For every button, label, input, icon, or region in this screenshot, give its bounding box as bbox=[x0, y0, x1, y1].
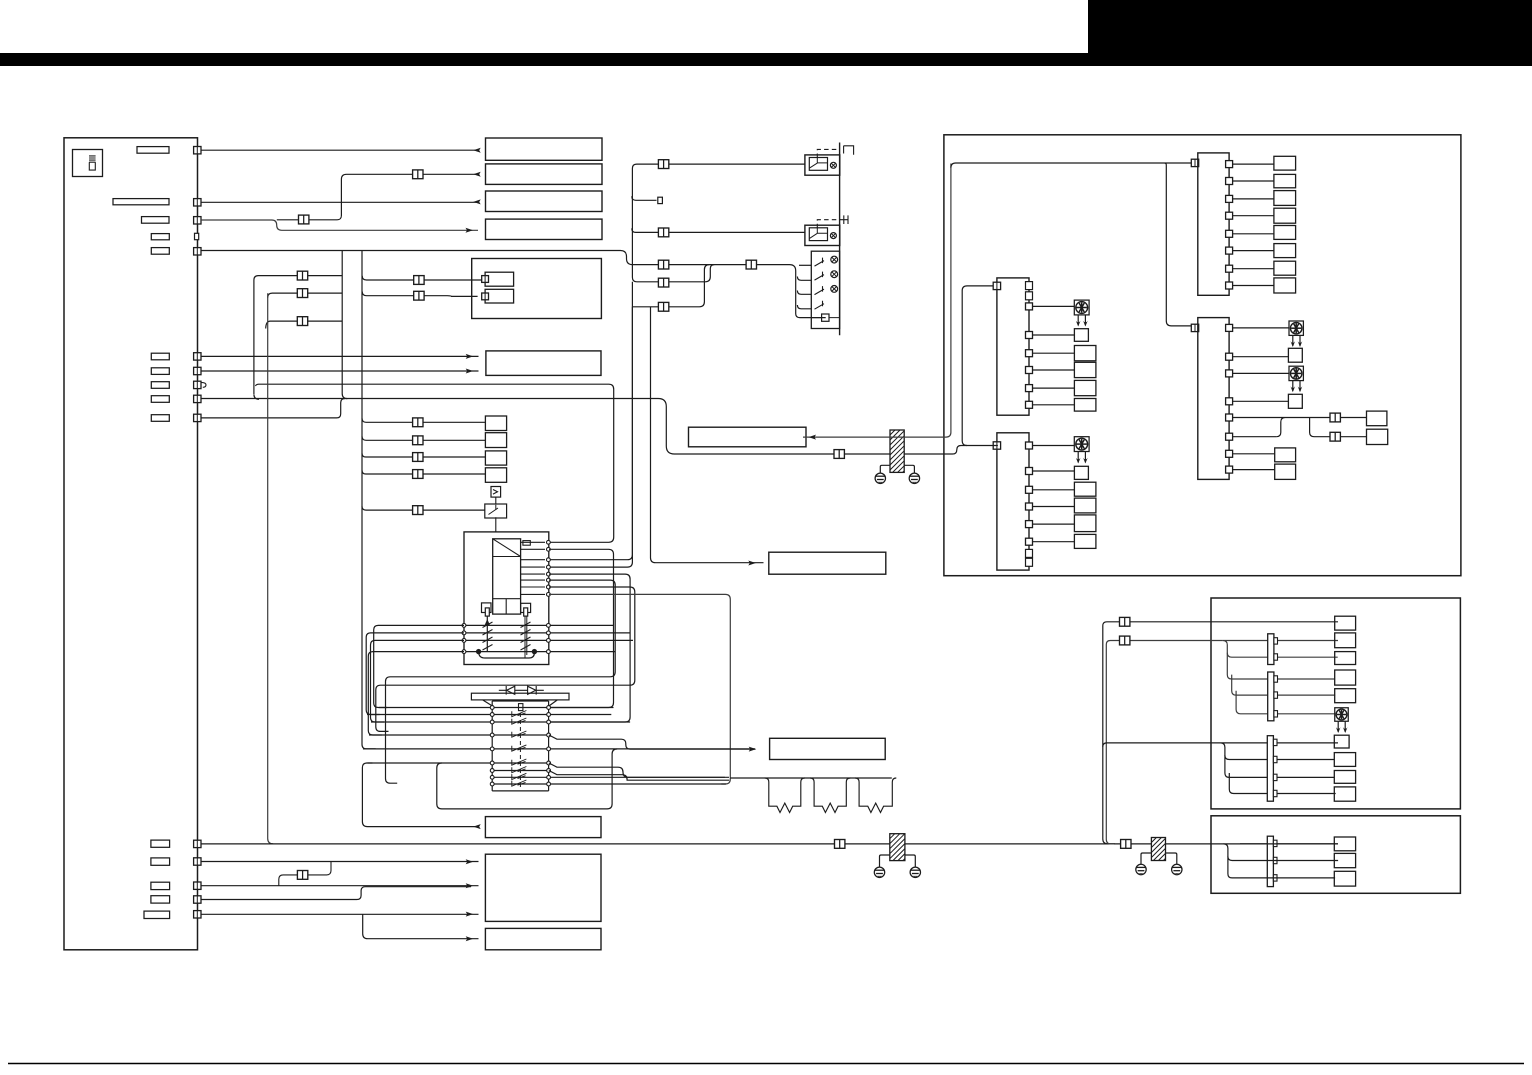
symbol link wire bbox=[495, 497, 497, 532]
wire long vertical x268 bbox=[268, 293, 274, 844]
wire strip1 row 6 bbox=[1233, 250, 1274, 252]
ladder row y748 bbox=[363, 748, 755, 750]
wire c5 bbox=[201, 913, 479, 915]
connector jog B bbox=[297, 289, 307, 298]
terminal box C-2 bbox=[1335, 633, 1356, 648]
ign row pin R y632 bbox=[547, 631, 551, 635]
fuse F15 bbox=[144, 911, 170, 918]
JB2 stub 2 bbox=[1274, 692, 1278, 698]
wire switch-symbol feed bbox=[362, 506, 485, 510]
terminal box C-4 bbox=[1335, 670, 1356, 685]
stack switch S3 bbox=[815, 286, 825, 295]
stub connector square bbox=[658, 197, 663, 203]
connector SB3 bbox=[413, 453, 423, 462]
fuse F1 bbox=[137, 147, 169, 154]
ign bottom link bbox=[479, 652, 535, 658]
hatched connector H3 bbox=[1151, 838, 1165, 861]
arrow into B3 bbox=[473, 199, 481, 204]
connector SB4 bbox=[413, 470, 423, 479]
ign relay top connector bbox=[523, 541, 530, 546]
ladder contact stroke y748 bbox=[512, 745, 527, 751]
fuse F9 bbox=[151, 396, 169, 403]
wire C feed1 bbox=[1103, 622, 1338, 844]
connector C2 bbox=[1120, 636, 1130, 645]
ECU pin y371 bbox=[194, 367, 201, 374]
ladder pin L y777 bbox=[490, 775, 494, 779]
wire long vertical x362 bbox=[362, 251, 376, 749]
wire y306 to S-merge bbox=[632, 265, 709, 307]
fuse F5 bbox=[151, 248, 169, 255]
wire P9 merge bbox=[201, 399, 345, 418]
ladder top component bbox=[519, 704, 523, 711]
arrow into B4 bbox=[466, 228, 474, 233]
strip3 pin 3 bbox=[1226, 370, 1233, 377]
terminal box T1-1 bbox=[1274, 156, 1296, 170]
wire strip1 row 8 bbox=[1233, 285, 1274, 287]
ladder bottom bbox=[492, 701, 548, 791]
wire SB4 feed bbox=[362, 470, 485, 474]
terminal box T3-2 bbox=[1288, 348, 1302, 362]
wire c2-c3 jog bbox=[279, 862, 331, 886]
terminal box C-9 bbox=[1334, 787, 1355, 801]
label box B9 bbox=[485, 817, 601, 838]
stack switch S4 bbox=[815, 301, 825, 310]
ladder pin R y770 bbox=[547, 769, 551, 773]
JB3 stub 2 bbox=[1273, 756, 1277, 762]
ladder pin R y722 bbox=[547, 720, 551, 724]
connector jog C bbox=[297, 317, 307, 326]
ladder contact stroke y770 bbox=[512, 767, 527, 773]
arrow into BD r3 bbox=[466, 912, 474, 917]
arrow into B7 bbox=[748, 561, 756, 566]
arrow into BD r2 bbox=[466, 883, 474, 888]
diode bar left leg bbox=[483, 700, 493, 706]
fan motor FM2 bbox=[1289, 321, 1303, 335]
terminal box T1-8 bbox=[1274, 278, 1296, 293]
wire relaypin 559 riser bbox=[549, 282, 632, 560]
connector strip S3 bbox=[1198, 318, 1229, 480]
ECU pin y150 bbox=[194, 147, 201, 154]
strip3 pin 6 bbox=[1226, 433, 1233, 440]
component M1 sub-box 2 bbox=[485, 289, 513, 303]
wire lrow651 west bbox=[368, 652, 464, 735]
battery icon box bbox=[73, 150, 103, 177]
small box SB1 bbox=[485, 416, 506, 431]
ECU pin y417 bbox=[194, 414, 201, 421]
connector M1 feed 1 bbox=[414, 276, 424, 285]
JB1 stub 1 bbox=[1274, 638, 1278, 644]
wire M1 feed 2 bbox=[362, 292, 477, 297]
wire C fan2c bbox=[1232, 675, 1335, 696]
wire C fan3c bbox=[1229, 773, 1335, 794]
switch feed branch 2 bbox=[797, 291, 811, 295]
strip4 left pin bbox=[993, 442, 1000, 449]
relay pin row 542 bbox=[547, 540, 551, 544]
wire C fan3b bbox=[1225, 755, 1334, 777]
wire c2 bbox=[201, 861, 479, 863]
strip3 pin 5 bbox=[1226, 414, 1233, 421]
relay pin row 559 bbox=[547, 558, 551, 562]
strip2 pin 3 bbox=[1026, 350, 1033, 357]
ladder contact stroke y735 bbox=[512, 731, 527, 737]
ladder bottom loop bbox=[437, 749, 617, 809]
strip2 pin 6 bbox=[1026, 401, 1033, 408]
stack lamp L2 bbox=[831, 271, 838, 278]
strip3 pin 1 bbox=[1226, 324, 1233, 331]
joint bar JB4 bbox=[1267, 836, 1273, 886]
connector relay1 feed bbox=[658, 160, 668, 169]
diode bar bbox=[471, 693, 569, 700]
wire strip1 row 3 bbox=[1233, 198, 1274, 200]
wire relay2 feed bbox=[632, 228, 805, 232]
resistor R1 bbox=[765, 778, 805, 813]
fuse F11 bbox=[151, 840, 170, 847]
terminal box T2-5 bbox=[1074, 380, 1096, 395]
terminal box T1-5 bbox=[1274, 226, 1296, 240]
small box SB4 bbox=[485, 468, 506, 483]
terminal box T3-8 bbox=[1275, 464, 1296, 479]
connector on P3 jog bbox=[299, 215, 309, 224]
relay K2 dashed box bbox=[817, 220, 839, 229]
footer rule bbox=[8, 1063, 1524, 1065]
connector on B2 wire bbox=[413, 170, 423, 179]
strip1 pin 8 bbox=[1226, 282, 1233, 289]
strip1 left pin bbox=[1191, 159, 1198, 166]
terminal box T1-6 bbox=[1274, 244, 1296, 258]
wire c4 bbox=[201, 887, 471, 900]
wire strip3 row6 bbox=[1233, 418, 1367, 437]
diode symbol box bbox=[491, 487, 501, 498]
wire strip3 row5 bbox=[1233, 418, 1367, 437]
small box SB2 bbox=[485, 433, 506, 448]
fan motor FM3 bbox=[1289, 366, 1303, 380]
ground G2 bbox=[909, 473, 919, 483]
ign relay outer box bbox=[464, 532, 549, 665]
terminal box C-5 bbox=[1335, 689, 1356, 703]
label box B2 bbox=[486, 164, 603, 185]
ladder jog row763 bbox=[549, 763, 725, 777]
wire strip3 row3 bbox=[1233, 372, 1289, 374]
ladder pin L y770 bbox=[490, 769, 494, 773]
switch stack box bbox=[811, 251, 839, 328]
joint bar JB1 bbox=[1268, 634, 1274, 665]
switch feed branch 3 bbox=[797, 305, 811, 309]
connector on y282 wire bbox=[658, 278, 668, 287]
strip1 pin 3 bbox=[1226, 195, 1233, 202]
label box B10 bbox=[485, 928, 601, 949]
strip2 stub 2 bbox=[1026, 292, 1033, 300]
connector strip S4 bbox=[997, 433, 1029, 570]
label box B5 bbox=[486, 351, 601, 376]
terminal box T2-2 bbox=[1074, 329, 1088, 342]
strip1 pin 7 bbox=[1226, 265, 1233, 272]
terminal box E-3 bbox=[1334, 871, 1355, 886]
component box M1 bbox=[472, 259, 602, 319]
wire strip1 row 5 bbox=[1233, 233, 1274, 235]
ECU bus vertical bbox=[632, 164, 805, 282]
ECU pin y251 bbox=[194, 248, 201, 255]
arrow into B6 bbox=[809, 435, 817, 440]
wire pin580 drop bbox=[386, 580, 616, 783]
ign contact dot R bbox=[532, 649, 537, 654]
wire pin549 drop bbox=[549, 549, 614, 707]
fan arrows FM5 bbox=[1336, 722, 1348, 734]
ladder pin L y748 bbox=[490, 747, 494, 751]
ground stem H2 L bbox=[880, 855, 890, 867]
strip3 pin 4 bbox=[1226, 398, 1233, 405]
strip1 pin 2 bbox=[1226, 178, 1233, 185]
arrow into B2 bbox=[473, 172, 481, 177]
ECU pin stub bbox=[195, 233, 199, 239]
resistor R3 bbox=[855, 778, 896, 813]
wire strip4 row1 bbox=[1033, 445, 1075, 447]
label box B1 bbox=[486, 138, 603, 160]
wire relaypin 567 riser bbox=[549, 307, 632, 567]
connector SB2 bbox=[413, 436, 423, 445]
fan arrows FM2 bbox=[1291, 336, 1303, 348]
terminal box T1-7 bbox=[1274, 261, 1296, 275]
wire strip4 row6 bbox=[1033, 541, 1075, 543]
wire strip2 row 2 bbox=[1033, 334, 1075, 336]
JB4 stub 3 bbox=[1273, 875, 1277, 881]
wire B7 drop bbox=[651, 307, 764, 563]
JB4 stub 1 bbox=[1273, 840, 1277, 846]
wire P5 branch down A bbox=[342, 251, 347, 399]
connector relay2 feed bbox=[658, 228, 668, 237]
connector T3 r5 bbox=[1330, 413, 1340, 422]
relay pin row 594 bbox=[547, 593, 551, 597]
ground stem H3 R bbox=[1166, 853, 1177, 864]
ladder pin L y707 bbox=[490, 706, 494, 710]
fan arrows FM4 bbox=[1076, 452, 1088, 464]
ladder left rail bbox=[491, 701, 493, 791]
ladder pin R y707 bbox=[547, 706, 551, 710]
terminal box C-1 bbox=[1335, 616, 1356, 630]
connector M1 feed 2 bbox=[414, 291, 424, 300]
ign row pin L y625 bbox=[462, 624, 466, 628]
strip3 pin 8 bbox=[1226, 466, 1233, 473]
connector on y306 wire bbox=[658, 302, 668, 311]
fuse F14 bbox=[151, 896, 170, 903]
ladder row y714 bbox=[367, 714, 611, 716]
wire E row1 bbox=[1240, 843, 1338, 845]
hatched connector T1 bbox=[890, 430, 904, 472]
terminal box C-7 bbox=[1334, 753, 1355, 767]
fuse F6 bbox=[151, 353, 169, 360]
terminal box C-8 bbox=[1334, 771, 1355, 784]
wire lrow625 west bbox=[374, 625, 464, 707]
fuse F2 bbox=[113, 199, 169, 205]
ladder contact stroke y784 bbox=[512, 780, 527, 786]
component M1 pin 2 bbox=[482, 293, 489, 300]
ladder pin L y714 bbox=[490, 713, 494, 717]
label box B6 bbox=[689, 427, 807, 447]
strip1 pin 5 bbox=[1226, 230, 1233, 237]
ign row wire y640 bbox=[464, 639, 633, 641]
wire strip2-strip4 bridge bbox=[962, 286, 998, 446]
ground G3 bbox=[874, 867, 884, 877]
small box SB3 bbox=[485, 451, 506, 465]
wire jog row A bbox=[254, 276, 342, 400]
strip2 pin 2 bbox=[1026, 332, 1033, 339]
harness box A bbox=[944, 135, 1461, 576]
strip1 pin 1 bbox=[1226, 161, 1233, 168]
ladder pin L y735 bbox=[490, 733, 494, 737]
fuse F8 bbox=[151, 382, 169, 389]
wire strip1 row 1 bbox=[1233, 163, 1274, 165]
connector on P8 bbox=[834, 450, 844, 459]
ign contact wire L bbox=[486, 616, 488, 651]
ign relay inner divider bbox=[493, 599, 521, 614]
terminal box T4-4 bbox=[1074, 498, 1096, 513]
ign row pin R y625 bbox=[547, 624, 551, 628]
terminal box T1-3 bbox=[1274, 191, 1296, 206]
ign row wire y632 bbox=[464, 632, 630, 634]
JB3 stub 1 bbox=[1273, 739, 1277, 745]
terminal box T4-3 bbox=[1074, 482, 1096, 496]
wire lrow640 west bbox=[371, 640, 465, 722]
wire strip2 row 6 bbox=[1033, 404, 1075, 406]
ladder row y777 bbox=[492, 776, 729, 778]
diode D1 bbox=[499, 686, 515, 695]
ground stem T1 R bbox=[904, 465, 914, 473]
ladder row y784 bbox=[492, 783, 726, 785]
wire strip3 row2 bbox=[1233, 356, 1289, 358]
terminal box T3-7 bbox=[1275, 448, 1296, 462]
ladder pin L y784 bbox=[490, 782, 494, 786]
ign row pin L y651 bbox=[462, 650, 466, 654]
strip4 pin 1 bbox=[1026, 442, 1033, 449]
connector strip S1 bbox=[1198, 153, 1229, 295]
connector jog P3 bbox=[277, 215, 342, 220]
JB4 stub 2 bbox=[1273, 857, 1277, 863]
ign relay foot L bbox=[482, 603, 492, 613]
ground G4 bbox=[910, 867, 920, 877]
wire to B9 bbox=[362, 763, 478, 827]
stack resistor box bbox=[822, 314, 829, 321]
ign row pin L y632 bbox=[462, 631, 466, 635]
wire top distribution bbox=[951, 163, 1192, 326]
arrow into B5 lower bbox=[466, 369, 474, 374]
stack lamp L3 bbox=[831, 286, 838, 293]
ECU pin y899 bbox=[194, 896, 201, 903]
terminal box C-6 bbox=[1334, 735, 1349, 748]
ECU pin hook bbox=[201, 382, 206, 387]
label box B7 bbox=[769, 552, 886, 574]
ECU pin y384 bbox=[194, 381, 201, 388]
fuse F3 bbox=[142, 217, 170, 224]
fuse F4 bbox=[151, 234, 169, 240]
wire C fan2d bbox=[1236, 691, 1335, 714]
fan motor FM5 bbox=[1335, 708, 1349, 722]
ign row wire y651 bbox=[464, 651, 615, 653]
JB3 stub 3 bbox=[1273, 774, 1277, 780]
wire P5 trunk bbox=[201, 251, 826, 318]
ladder pin R y748 bbox=[547, 747, 551, 751]
ign row pin R y640 bbox=[547, 639, 551, 643]
terminal box T2-4 bbox=[1074, 362, 1096, 377]
stub connector bbox=[632, 196, 657, 200]
strip2 left pin bbox=[993, 282, 1000, 289]
stack lamp L1 bbox=[831, 256, 838, 263]
fan arrows FM3 bbox=[1291, 381, 1303, 393]
wire P1 to B1 bbox=[201, 149, 478, 151]
hatched connector H2 bbox=[890, 834, 905, 861]
ladder jog row770 bbox=[549, 771, 729, 781]
terminal box T4-2 bbox=[1074, 466, 1088, 479]
terminal box T3-4 bbox=[1288, 394, 1302, 408]
ECU pin y356 bbox=[194, 353, 201, 360]
terminal box T1-2 bbox=[1274, 174, 1296, 187]
ECU box bbox=[64, 138, 198, 950]
battery symbol bbox=[89, 156, 96, 170]
component M1 pin 1 bbox=[482, 276, 489, 283]
ign relay inner box bbox=[493, 539, 521, 614]
fan motor FM4 bbox=[1074, 437, 1089, 452]
strip2 stub 1 bbox=[1026, 282, 1033, 290]
stack switch S2 bbox=[815, 272, 825, 281]
arrow into B1 bbox=[473, 148, 481, 153]
ground G5 bbox=[1136, 864, 1146, 874]
terminal box C-3 bbox=[1335, 652, 1356, 665]
strip3 left pin bbox=[1191, 324, 1198, 331]
wire pin574 drop bbox=[549, 574, 631, 722]
ladder contact stroke y777 bbox=[512, 773, 527, 779]
wire C fan2a bbox=[1223, 641, 1338, 658]
connector c1 a bbox=[835, 840, 845, 849]
wire SB1 feed bbox=[362, 418, 485, 422]
power bus vertical bbox=[839, 143, 841, 336]
relay K1 dashed box bbox=[817, 149, 839, 158]
strip3 pin 7 bbox=[1226, 450, 1233, 457]
wire c3 bbox=[201, 885, 479, 887]
wire SB2 feed bbox=[362, 436, 485, 440]
harness box C bbox=[1211, 598, 1460, 809]
switch feed row1 stub bbox=[799, 264, 811, 266]
ladder right rail bbox=[548, 701, 550, 791]
ladder pin R y763 bbox=[547, 761, 551, 765]
strip2 pin 1 bbox=[1026, 303, 1033, 310]
ladder row y722 bbox=[371, 721, 630, 723]
ign contact stroke L1 bbox=[483, 622, 493, 650]
ign relay post L bbox=[485, 608, 489, 616]
fuse F7 bbox=[151, 368, 169, 375]
ground G6 bbox=[1172, 864, 1182, 874]
wire strip4 row5 bbox=[1033, 523, 1075, 525]
JB2 stub 1 bbox=[1274, 676, 1278, 682]
ladder pin L y763 bbox=[490, 761, 494, 765]
ladder contact stroke y722 bbox=[512, 718, 527, 724]
strip4 stub 1 bbox=[1026, 549, 1033, 557]
label box B8 bbox=[770, 738, 886, 759]
arrow out of B9 bbox=[473, 824, 481, 829]
strip4 pin 4 bbox=[1026, 503, 1033, 510]
strip3 pin 2 bbox=[1226, 353, 1233, 360]
arrow into B8 bbox=[749, 747, 757, 752]
ground stem T1 L bbox=[880, 465, 890, 473]
ladder row y735 bbox=[369, 734, 551, 736]
connector jog A bbox=[297, 271, 307, 280]
wire E fan a bbox=[1224, 844, 1339, 861]
relay pin row 567 bbox=[547, 565, 551, 569]
ladder row y770 bbox=[492, 770, 551, 772]
wire c1 main bbox=[201, 843, 1338, 845]
relay pin row 580 bbox=[547, 578, 551, 582]
label box B3 bbox=[486, 191, 603, 212]
wire C feed2 grey bbox=[1106, 641, 1223, 844]
wire P6 to B5 bbox=[201, 355, 479, 357]
wire hook b384 bbox=[255, 384, 613, 542]
